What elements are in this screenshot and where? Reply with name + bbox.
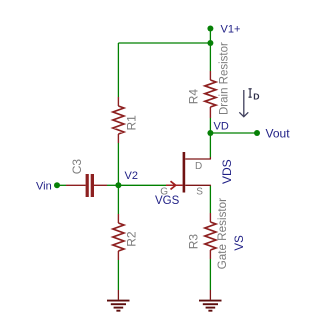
svg-text:VD: VD bbox=[214, 121, 229, 133]
transistor Q1 (MOSFET) bbox=[166, 152, 211, 193]
svg-text:VGS: VGS bbox=[155, 195, 180, 207]
wire VD to Vout bbox=[210, 132, 257, 134]
node VD bbox=[207, 130, 213, 136]
wire lead into right ground bbox=[209, 290, 211, 300]
svg-text:R1: R1 bbox=[124, 115, 138, 131]
node V2 bbox=[115, 182, 121, 188]
svg-text:VDS: VDS bbox=[220, 159, 234, 184]
node junction top bbox=[207, 40, 213, 46]
svg-text:S: S bbox=[196, 186, 203, 197]
node Vout bbox=[254, 130, 260, 136]
wire R3 to right ground bbox=[209, 259, 211, 290]
svg-text:D: D bbox=[195, 161, 202, 172]
svg-text:R3: R3 bbox=[187, 234, 201, 250]
ground right bbox=[199, 301, 222, 311]
svg-text:Gate Resistor: Gate Resistor bbox=[216, 198, 229, 270]
wire source down to R3 bbox=[209, 185, 211, 213]
svg-text:R4: R4 bbox=[187, 89, 201, 105]
resistor R3 bbox=[187, 213, 216, 259]
svg-text:V2: V2 bbox=[125, 170, 138, 182]
capacitor C3 bbox=[66, 159, 107, 197]
wire V2 to gate bbox=[118, 184, 166, 186]
wire top horizontal bbox=[118, 42, 210, 44]
wire top vertical from V1+ bbox=[209, 29, 211, 44]
wire R2 to left ground bbox=[117, 260, 119, 290]
resistor R1 bbox=[113, 97, 138, 143]
resistor R2 bbox=[113, 214, 138, 260]
wire lead into left ground bbox=[117, 290, 119, 300]
resistor R4 bbox=[187, 71, 216, 118]
wire R4 to VD node bbox=[209, 118, 211, 133]
svg-text:Drain Resistor: Drain Resistor bbox=[219, 42, 231, 115]
svg-text:R2: R2 bbox=[124, 231, 138, 247]
wire VD down to drain bbox=[209, 133, 211, 157]
ground left bbox=[107, 301, 130, 311]
svg-text:C3: C3 bbox=[70, 159, 84, 175]
node Vin bbox=[54, 182, 60, 188]
wire left vertical to R1 bbox=[117, 43, 119, 97]
node V1+ bbox=[207, 26, 213, 32]
wire C3 to V2 bbox=[107, 184, 118, 186]
svg-text:D: D bbox=[253, 92, 259, 102]
svg-text:VS: VS bbox=[234, 235, 246, 251]
svg-text:Vin: Vin bbox=[36, 181, 52, 193]
wire V2 down to R2 bbox=[117, 185, 119, 214]
svg-text:Vout: Vout bbox=[266, 126, 291, 140]
current arrow ID bbox=[239, 89, 259, 117]
wire V1+ junction down to R4 bbox=[209, 43, 211, 71]
svg-text:V1+: V1+ bbox=[221, 24, 241, 36]
wire R1 to V2 bbox=[117, 143, 119, 185]
wire Vin to C3 bbox=[57, 184, 66, 186]
